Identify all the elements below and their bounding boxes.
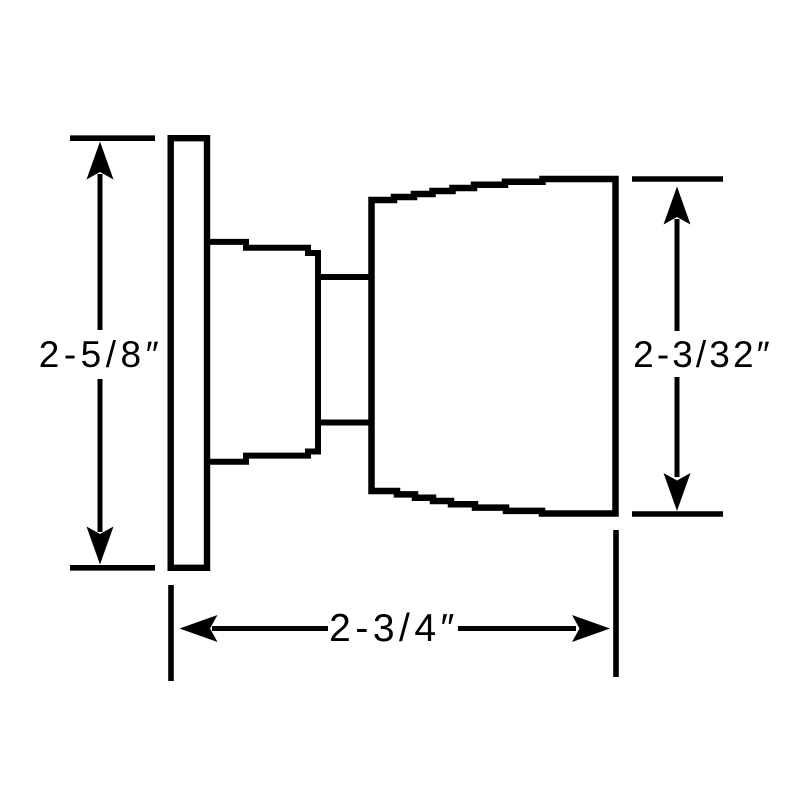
bottom dimension line left segment	[212, 626, 328, 631]
rose plate rectangle	[171, 138, 207, 568]
shank bottom stepped edge	[206, 452, 318, 462]
bottom dimension right extension line	[613, 530, 619, 677]
left dimension arrow down	[87, 527, 114, 565]
left dimension arrow up	[87, 142, 114, 180]
right dimension arrow up	[664, 187, 691, 225]
spindle bottom line	[315, 420, 372, 426]
shank top stepped edge	[206, 242, 318, 253]
right dimension bottom tick	[632, 511, 723, 517]
right dimension line lower segment	[675, 377, 680, 477]
right dimension top tick	[632, 176, 723, 182]
bottom dimension left extension line	[168, 585, 174, 681]
left dimension line upper segment	[98, 174, 103, 330]
left dimension line lower segment	[98, 379, 103, 532]
svg-text:2-5/8″: 2-5/8″	[39, 334, 163, 375]
shank right face vertical	[315, 250, 321, 455]
bottom dimension arrow left	[180, 615, 218, 642]
bottom dimension arrow right	[572, 615, 610, 642]
svg-text:2-3/4″: 2-3/4″	[329, 607, 459, 650]
left dimension top tick	[70, 135, 155, 141]
left dimension bottom tick	[70, 565, 155, 571]
right dimension line upper segment	[675, 219, 680, 331]
knob body stepped outline	[372, 179, 616, 514]
bottom dimension line right segment	[458, 626, 576, 631]
spindle top line	[315, 274, 372, 280]
svg-text:2-3/32″: 2-3/32″	[633, 334, 773, 375]
right dimension arrow down	[664, 473, 691, 511]
